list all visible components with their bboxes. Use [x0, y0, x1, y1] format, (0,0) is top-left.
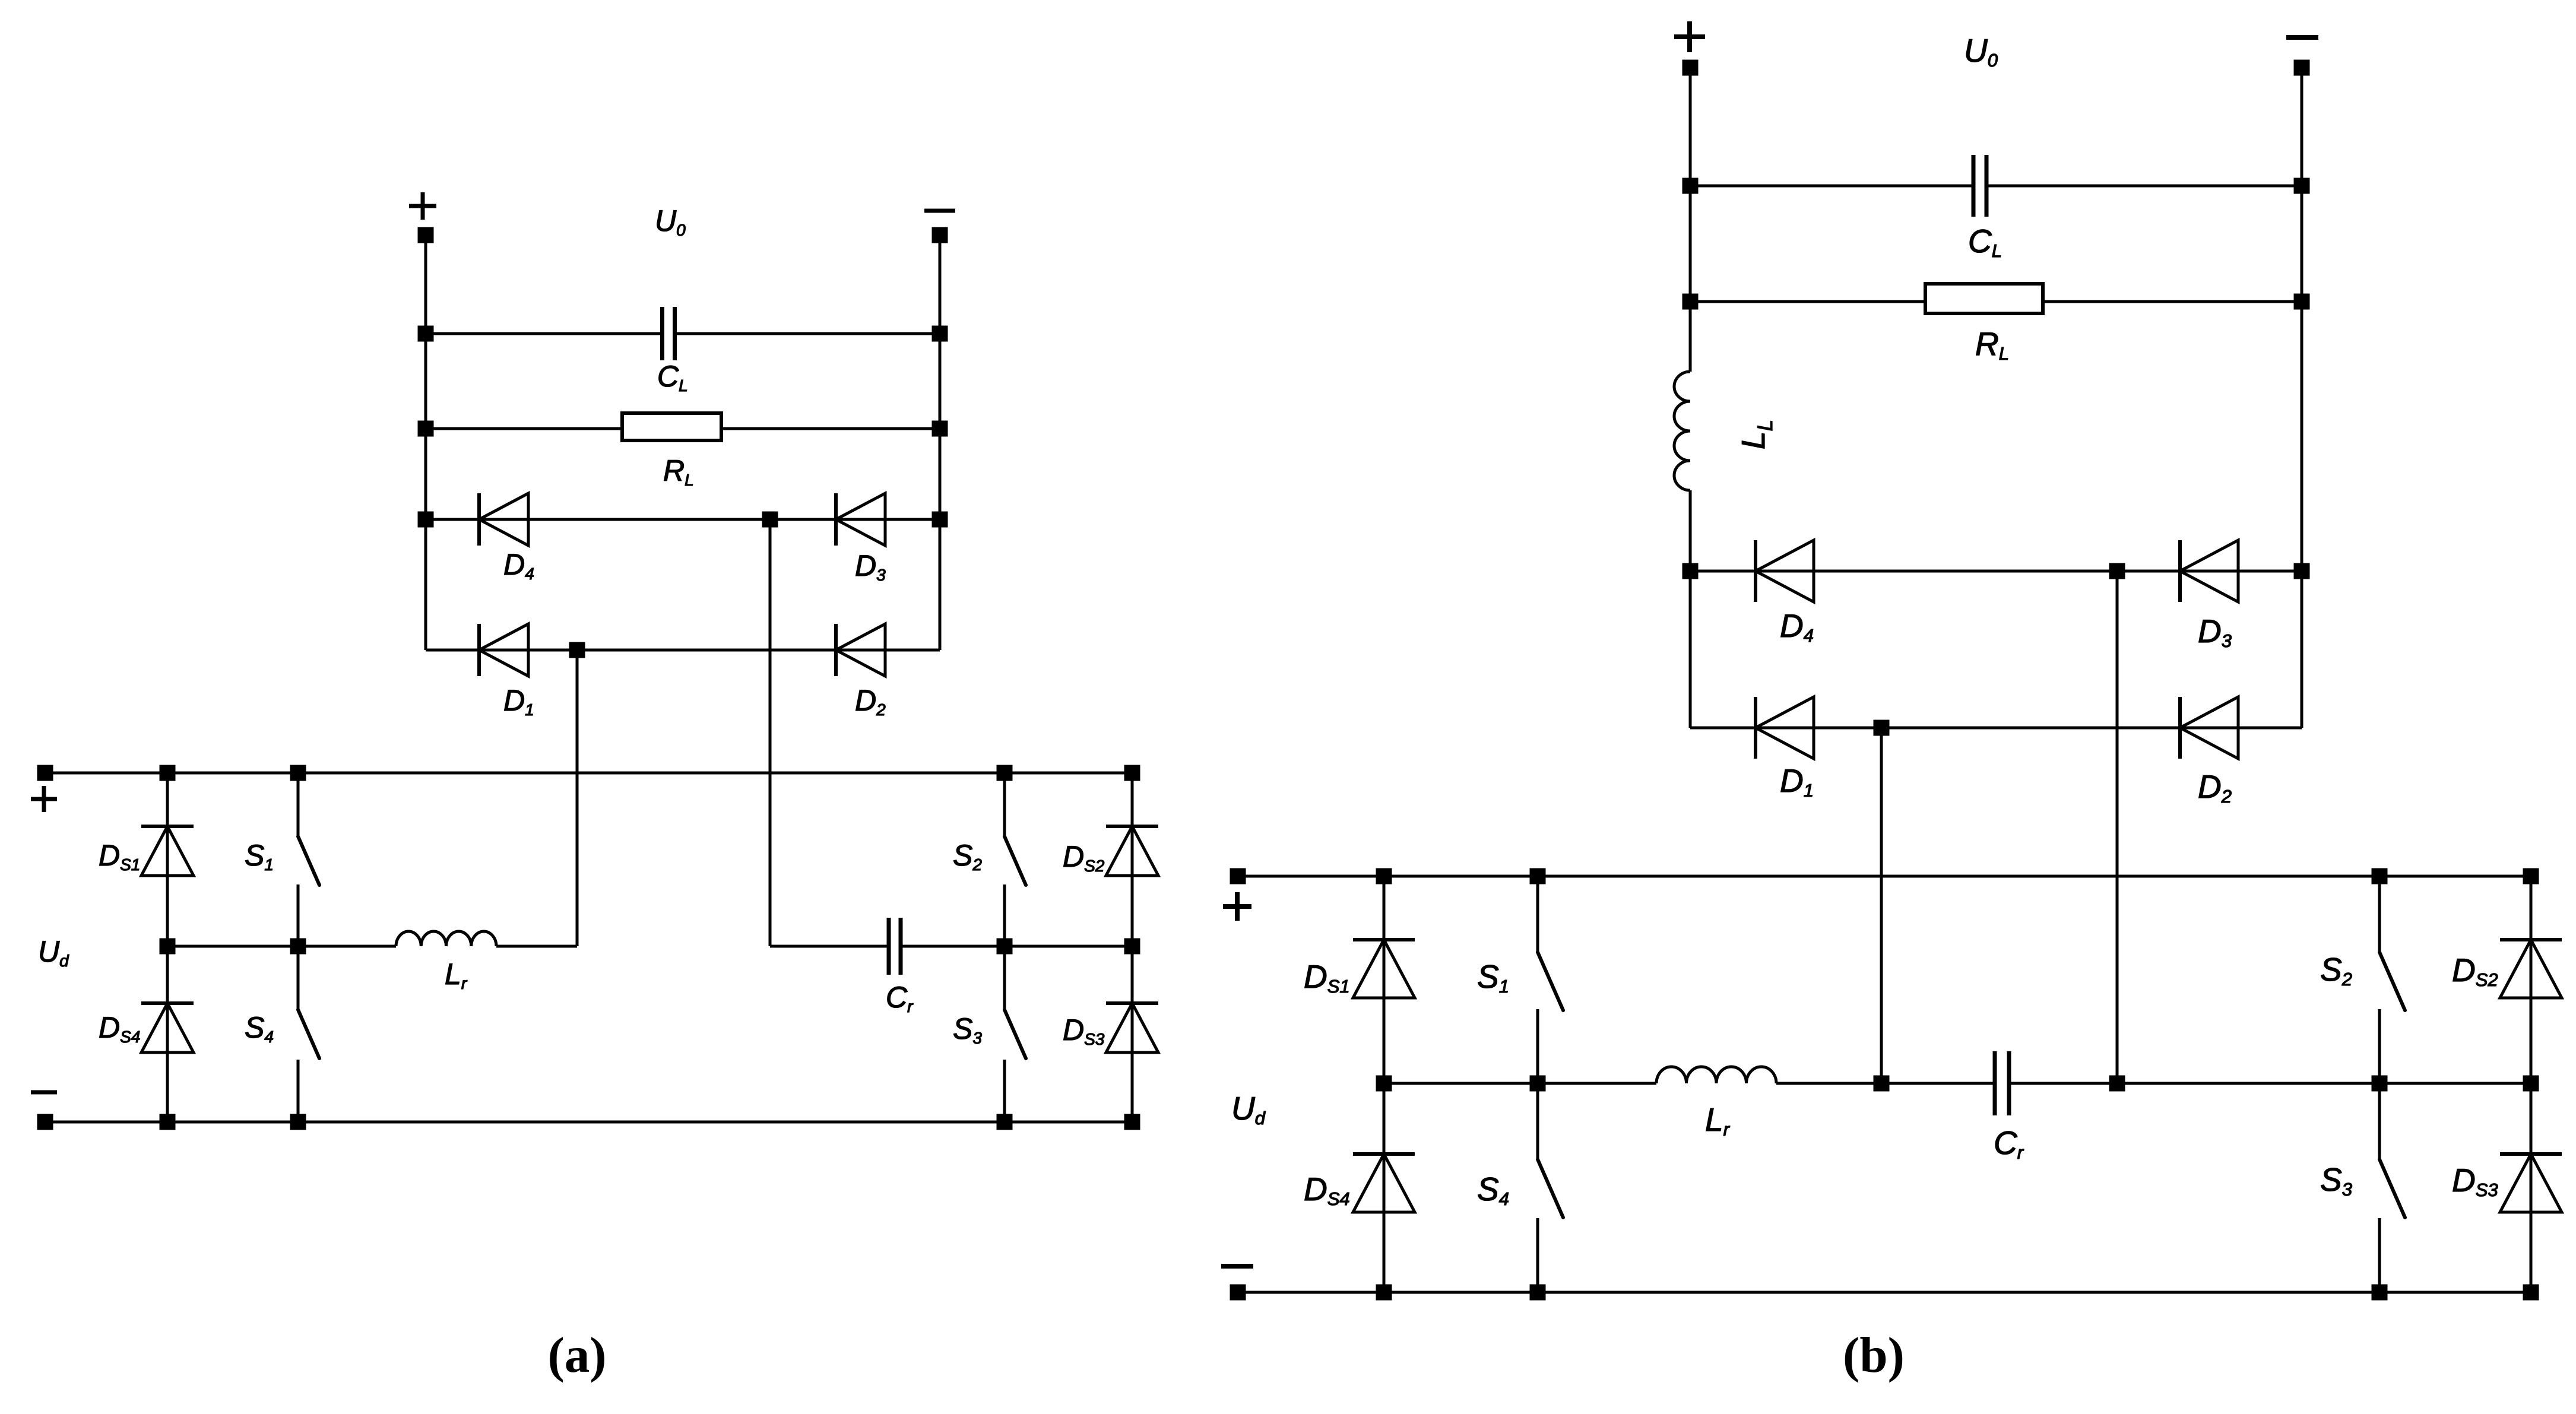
wire: (b) D1-D2 row: [1690, 727, 2302, 730]
wire: (a) vertical from D1 junction down to Lr: [576, 650, 579, 946]
node: (a) output - terminal: [932, 227, 948, 243]
capacitor Cr (b): [1995, 1051, 2009, 1115]
diode D1 (b): [1756, 697, 1814, 759]
wire: (b) Cr to right columns: [2117, 1082, 2531, 1085]
node: (a) top rail S1 col: [290, 765, 306, 781]
diode DS4 (b): [1353, 1154, 1415, 1212]
wire: (b) bridge top rail: [1238, 875, 2531, 878]
wire: circuit (b) output left rail upper: [1689, 68, 1692, 372]
wire: (a) bridge bottom rail: [45, 1121, 1132, 1124]
diode D1 (a): [479, 624, 528, 676]
node: (a) D4 row left: [418, 512, 434, 528]
diode DS1 (b): [1353, 940, 1415, 998]
node: (a) junction D4/D3 to Cr: [762, 512, 778, 528]
diode D4 (b): [1756, 540, 1814, 602]
node: (a) mid S1/S4 col: [290, 939, 306, 955]
node: (b) bottom rail S4 col: [1530, 1285, 1546, 1301]
node: (b) mid Cr/vertical junction: [2109, 1076, 2125, 1092]
node: (b) mid DS1/DS4 col: [1376, 1076, 1392, 1092]
wire: (b) D4-D3 row: [1690, 570, 2302, 573]
capacitor Cr (a): [889, 918, 901, 975]
resistor RL (b): [1925, 284, 2043, 313]
node: (b) RL right: [2294, 294, 2310, 310]
node: (b) mid S1/S4 col: [1530, 1076, 1546, 1092]
wire: (a) D4-D3 row: [426, 518, 940, 521]
plus sign: (b) U0 positive terminal: [1674, 21, 1705, 52]
node: (b) bottom rail DS4 col: [1376, 1285, 1392, 1301]
switch S3 (a): [1005, 946, 1026, 1122]
wire: circuit (b) output left rail lower: [1689, 490, 1692, 728]
wire: (a) vertical from D4/D3 junction down to Cr: [769, 519, 772, 946]
wire: (b) bridge mid line: [1384, 1082, 1656, 1085]
node: (b) D4 row left: [1683, 563, 1699, 579]
wire: (b) RL row: [1690, 300, 1925, 303]
diode DS3 (b): [2500, 1154, 2562, 1212]
node: (b) CL left: [1683, 178, 1699, 194]
diode DS2 (a): [1106, 826, 1158, 876]
capacitor CL (a): [663, 307, 675, 360]
diode D3 (b): [2180, 540, 2238, 602]
node: (b) mid S2/S3 col: [2372, 1076, 2388, 1092]
minus sign: (b) Ud negative: [1221, 1264, 1253, 1269]
svg-text:(b): (b): [1843, 1327, 1905, 1383]
node: (b) top rail S1 col: [1530, 868, 1546, 884]
node: (a) top rail DS2 col: [1124, 765, 1140, 781]
node: (a) bottom rail DS4 col: [160, 1114, 176, 1130]
node: (b) bottom rail S3 col: [2372, 1285, 2388, 1301]
diode D2 (a): [836, 624, 885, 676]
node: (b) junction D4/D3 to Cr: [2109, 563, 2125, 579]
node: (a) output + terminal: [418, 227, 434, 243]
wire: (a) DS1/DS4 column: [166, 773, 169, 1122]
wire: (b) bridge bottom rail: [1238, 1291, 2531, 1294]
wire: (a) bridge top rail: [45, 772, 1132, 775]
node: (a) bottom rail S4 col: [290, 1114, 306, 1130]
wire: (b) vertical from D1 junction down to Lr/Cr node: [1880, 728, 1883, 1083]
switch S4 (b): [1538, 1083, 1563, 1292]
minus sign: (a) U0 negative terminal: [924, 209, 955, 213]
minus sign: (a) Ud negative: [31, 1090, 57, 1095]
wire: (b) junction to Cr: [1881, 1082, 1995, 1085]
node: (a) mid S2/S3 col: [997, 939, 1013, 955]
switch S3 (b): [2379, 1083, 2405, 1292]
diode DS2 (b): [2500, 940, 2562, 998]
plus sign: (a) Ud positive: [31, 786, 57, 812]
wire: (a) bridge mid line right: [770, 945, 889, 948]
inductor Lr (b): [1656, 1067, 1776, 1083]
node: (a) mid DS1/DS4 col: [160, 939, 176, 955]
wire: (b) vertical from D4/D3 junction down to Cr right node: [2116, 571, 2119, 1083]
switch S4 (a): [298, 946, 319, 1122]
node: (b) CL right: [2294, 178, 2310, 194]
wire: (a) RL row: [426, 427, 622, 430]
node: (a) junction D1/D2 to Lr: [569, 642, 585, 658]
wire: (a) DS2/DS3 column: [1131, 773, 1134, 1122]
capacitor CL (b): [1973, 155, 1986, 217]
wire: circuit (a) output right rail: [939, 235, 942, 650]
node: (b) output + terminal: [1683, 60, 1699, 76]
wire: (b) DS1/DS4 column: [1383, 876, 1386, 1292]
wire: circuit (b) output right rail: [2301, 68, 2303, 728]
wire: (b) DS2/DS3 column: [2530, 876, 2533, 1292]
diode DS4 (a): [141, 1003, 194, 1052]
node: (b) top rail DS1 col: [1376, 868, 1392, 884]
node: (a) mid DS2/DS3 col: [1124, 939, 1140, 955]
node: (a) bottom rail left end: [37, 1114, 53, 1130]
wire: circuit (a) output left rail: [424, 235, 427, 650]
node: (a) top rail S2 col: [997, 765, 1013, 781]
resistor RL (a): [622, 413, 721, 440]
diode D2 (b): [2180, 697, 2238, 759]
diode DS1 (a): [141, 826, 194, 876]
node: (a) bottom rail S3 col: [997, 1114, 1013, 1130]
node: (a) top rail DS1 col: [160, 765, 176, 781]
node: (a) RL left: [418, 421, 434, 437]
plus sign: (b) Ud positive: [1223, 892, 1251, 921]
node: (b) top rail S2 col: [2372, 868, 2388, 884]
wire: (a) Lr to vertical: [496, 945, 577, 948]
inductor Lr (a): [396, 931, 496, 946]
node: (b) mid DS2/DS3 col: [2523, 1076, 2539, 1092]
node: (b) junction D1/D2 to Lr: [1874, 720, 1890, 736]
node: (b) top rail left end: [1230, 868, 1246, 884]
wire: (b) CL row: [1690, 185, 1973, 188]
node: (b) top rail DS2 col: [2523, 868, 2539, 884]
node: (a) top rail left end: [37, 765, 53, 781]
inductor LL (b): [1674, 372, 1690, 490]
node: (b) D3 row right: [2294, 563, 2310, 579]
node: (a) RL right: [932, 421, 948, 437]
wire: (a) bridge mid line left: [167, 945, 396, 948]
node: (b) bottom rail DS3 col: [2523, 1285, 2539, 1301]
switch S2 (b): [2379, 876, 2405, 1083]
switch S1 (b): [1538, 876, 1563, 1083]
wire: (b) Lr to junction: [1776, 1082, 1881, 1085]
node: (a) bottom rail DS3 col: [1124, 1114, 1140, 1130]
switch S2 (a): [1005, 773, 1026, 946]
wire: (a) D1-D2 row: [426, 649, 940, 652]
plus sign: (a) U0 positive terminal: [409, 192, 436, 220]
wire: (a) CL row: [426, 332, 663, 335]
switch S1 (a): [298, 773, 319, 946]
node: (b) RL left: [1683, 294, 1699, 310]
node: (b) output - terminal: [2294, 60, 2310, 76]
node: (a) D3 row right: [932, 512, 948, 528]
diode D3 (a): [836, 493, 885, 546]
node: (b) bottom rail left end: [1230, 1285, 1246, 1301]
node: (a) CL right: [932, 326, 948, 342]
diode D4 (a): [479, 493, 528, 546]
svg-text:(a): (a): [547, 1327, 606, 1383]
diode DS3 (a): [1106, 1003, 1158, 1052]
node: (a) CL left: [418, 326, 434, 342]
minus sign: (b) U0 negative terminal: [2286, 35, 2318, 40]
node: (b) mid Lr/vertical junction: [1874, 1076, 1890, 1092]
